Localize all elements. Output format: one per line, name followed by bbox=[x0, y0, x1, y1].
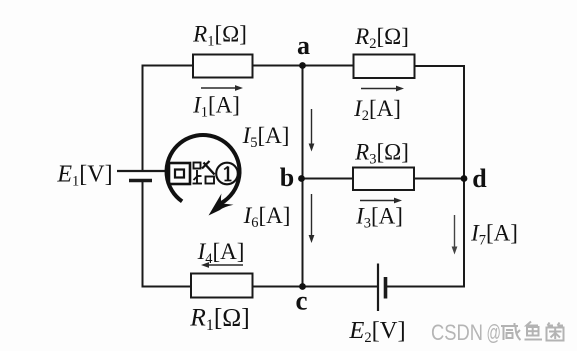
wire middle vertical (a to c) bbox=[302, 66, 304, 287]
svg-text:I7[A]: I7[A] bbox=[470, 221, 518, 249]
svg-text:I3[A]: I3[A] bbox=[355, 204, 403, 232]
svg-text:@: @ bbox=[487, 320, 502, 345]
text circled 1 glyph bbox=[216, 163, 238, 185]
svg-text:I6[A]: I6[A] bbox=[243, 203, 291, 231]
battery E1 long plate with lead dash bbox=[117, 170, 166, 172]
battery E2 short plate bbox=[384, 277, 388, 299]
watermark glyph yu bbox=[525, 322, 543, 340]
resistor R2 bbox=[354, 55, 415, 79]
node a bbox=[299, 62, 306, 69]
svg-text:R1[Ω]: R1[Ω] bbox=[189, 303, 250, 335]
wire left vertical upper (E1 top plate to top-left corner) bbox=[142, 66, 144, 172]
loop arrow circle (kairo 1) bbox=[167, 135, 240, 205]
text kairo (lu) glyph bbox=[193, 161, 215, 184]
node c bbox=[299, 283, 306, 290]
svg-text:E2[V]: E2[V] bbox=[348, 317, 405, 346]
svg-text:I1[A]: I1[A] bbox=[192, 93, 240, 121]
svg-text:E1[V]: E1[V] bbox=[56, 162, 112, 190]
wire top segment left (corner to R1) bbox=[142, 65, 194, 67]
svg-text:I2[A]: I2[A] bbox=[353, 96, 401, 124]
node b bbox=[298, 175, 305, 182]
current arrow I5 (down) bbox=[309, 109, 315, 152]
svg-text:R3[Ω]: R3[Ω] bbox=[354, 140, 409, 168]
svg-text:b: b bbox=[280, 163, 294, 192]
svg-text:CSDN: CSDN bbox=[431, 320, 483, 345]
resistor R1 (bottom) bbox=[191, 274, 253, 298]
svg-text:c: c bbox=[296, 286, 308, 316]
current arrow I2 bbox=[361, 86, 404, 92]
current arrow I6 (down) bbox=[309, 194, 315, 243]
current arrow I7 (down) bbox=[452, 215, 458, 255]
wire top segment middle (R1 to R2 through node a) bbox=[253, 65, 354, 67]
watermark glyph xian bbox=[501, 323, 521, 340]
current arrow I1 bbox=[201, 85, 243, 91]
resistor R1 (top) bbox=[193, 55, 253, 78]
svg-text:R2[Ω]: R2[Ω] bbox=[354, 24, 409, 52]
current arrow I3 bbox=[360, 198, 402, 204]
wire R3 to node d bbox=[414, 178, 464, 180]
svg-text:R1[Ω]: R1[Ω] bbox=[192, 22, 247, 50]
loop arrowhead bbox=[209, 194, 234, 216]
resistor R3 bbox=[353, 168, 414, 191]
svg-text:I4[A]: I4[A] bbox=[197, 239, 245, 267]
svg-text:I5[A]: I5[A] bbox=[242, 123, 290, 151]
current arrow I4 (leftward) bbox=[201, 262, 243, 268]
svg-text:d: d bbox=[472, 164, 487, 193]
wire bottom segment (E2 to node c to R1 bottom) bbox=[253, 286, 379, 288]
wire top right corner down to node d bbox=[415, 66, 465, 179]
node d bbox=[461, 175, 468, 182]
text kairo (hui) glyph: outer box bbox=[169, 163, 190, 184]
watermark glyph jun bbox=[547, 323, 564, 341]
battery E1 short plate bbox=[129, 179, 152, 183]
svg-text:a: a bbox=[297, 31, 310, 60]
battery E2 long plate bbox=[377, 264, 379, 312]
wire right vertical lower (d to bottom corner) bbox=[386, 179, 465, 287]
wire bottom-left corner up to E1 bbox=[143, 181, 192, 287]
wire middle horizontal b to R3 bbox=[303, 178, 354, 180]
